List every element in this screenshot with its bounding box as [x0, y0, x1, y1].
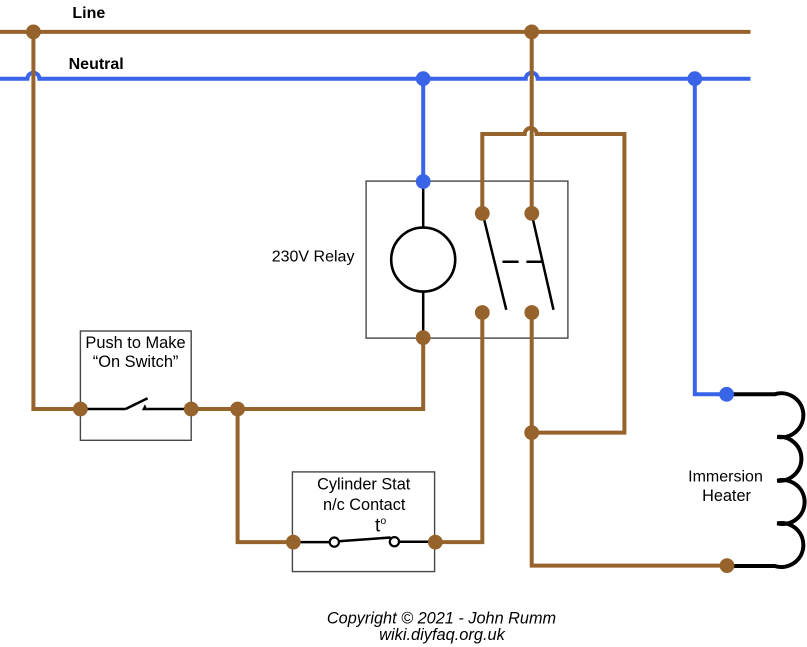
node: stat branch junction [230, 402, 245, 417]
wire: neutral drop to immersion heater (blue) [695, 79, 727, 395]
svg-text:n/c Contact: n/c Contact [323, 496, 406, 514]
relay box K1 [366, 181, 568, 338]
relay coil [391, 228, 455, 292]
wire: push switch to relay coil bottom (brown) [191, 338, 423, 409]
node: heater bottom terminal [720, 558, 735, 573]
wire: line drop to relay contact 2 top (brown) [530, 32, 534, 214]
svg-text:Heater: Heater [702, 487, 751, 505]
wire: contact jumper with hump, down right side to junction (brown) [482, 128, 624, 433]
svg-text:to: to [375, 515, 386, 537]
stat switch blade [339, 538, 391, 542]
svg-text:230V Relay: 230V Relay [272, 248, 355, 265]
node: relay coil bottom terminal [416, 330, 431, 345]
wire: contact 2 bottom to heater bottom (brown) [532, 313, 727, 566]
node: Neutral / relay coil drop junction [416, 71, 431, 86]
relay coil lead top [422, 182, 425, 228]
relay coil lead bottom [422, 291, 425, 337]
node: push switch right terminal [184, 402, 199, 417]
relay contact link (dashed) [502, 261, 543, 264]
node: relay contact 1 bottom terminal [475, 305, 490, 320]
wire: cylinder stat to relay contact 1 bottom (brown) [435, 313, 482, 543]
svg-text:“On Switch”: “On Switch” [93, 353, 179, 371]
push switch actuator arrow [142, 404, 148, 410]
node: relay contact 2 top terminal [524, 206, 539, 221]
node: Neutral / heater drop junction [687, 71, 702, 86]
push-to-make switch box [80, 331, 191, 440]
relay contact 2 blade [533, 220, 554, 310]
node: relay contact 1 top terminal [475, 206, 490, 221]
node: stat left terminal [286, 535, 301, 550]
node: relay coil top terminal (blue) [416, 174, 431, 189]
immersion heater element coil [727, 393, 805, 567]
stat switch contact circle [390, 537, 399, 546]
node: push switch left terminal [73, 402, 88, 417]
svg-text:Neutral: Neutral [69, 56, 124, 73]
node: relay contact 2 bottom terminal [524, 305, 539, 320]
svg-text:Immersion: Immersion [688, 468, 763, 485]
node: Line / contact 2 drop junction [524, 25, 539, 40]
node: Line / left drop junction [26, 25, 41, 40]
wire: Line bus (brown) [0, 30, 751, 34]
stat switch right lead [399, 540, 435, 543]
push switch left lead [81, 408, 126, 411]
wire: line drop to push switch (brown) [33, 32, 80, 409]
push switch blade [126, 398, 148, 409]
node: heater top terminal (blue) [719, 387, 734, 402]
node: contact 2 / jumper return junction [524, 425, 539, 440]
svg-text:Push to Make: Push to Make [85, 334, 185, 352]
push switch right lead [147, 408, 191, 411]
svg-text:wiki.diyfaq.org.uk: wiki.diyfaq.org.uk [379, 626, 506, 644]
stat switch pivot circle [330, 538, 339, 547]
relay contact 1 blade [484, 219, 506, 310]
cylinder stat box [292, 472, 434, 572]
node: stat right terminal [428, 535, 443, 550]
svg-text:Line: Line [72, 5, 105, 22]
svg-text:Cylinder Stat: Cylinder Stat [317, 476, 411, 494]
wire: junction drop to cylinder stat (brown) [238, 409, 294, 542]
svg-text:Copyright © 2021 - John Rumm: Copyright © 2021 - John Rumm [327, 610, 556, 628]
stat switch left lead [293, 541, 330, 544]
wire: neutral drop to relay coil (blue) [421, 79, 425, 182]
wire: Neutral bus (blue) with bridge humps at x=33.4 and x=531.7 [0, 73, 751, 79]
